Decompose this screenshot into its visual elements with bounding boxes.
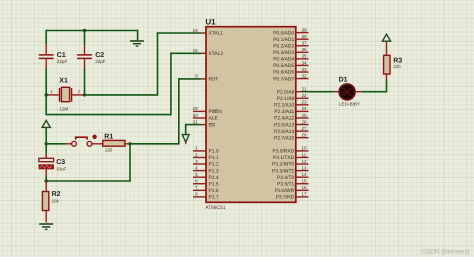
svg-text:C1: C1 [57,52,66,59]
svg-text:P0.5/AD5: P0.5/AD5 [273,63,294,69]
ground (bottom, earth symbol) [39,224,53,229]
node junction crystal left / C1 [45,93,48,96]
svg-text:R1: R1 [104,134,113,141]
svg-text:220: 220 [393,64,401,69]
svg-text:19: 19 [193,28,199,33]
pin 23 P2.2/A10 (right) [274,100,308,109]
pin 35 P0.4/AD4 (right) [273,54,308,63]
node junction C3 bottom / R2 / RST [45,179,48,182]
pin 39 P0.0/AD0 (right) [273,27,308,36]
pin 6 P1.5 (left) [193,179,219,188]
pin 30 ALE (left) [193,113,219,122]
svg-text:X1: X1 [59,78,68,85]
node junction top rail / C2 [83,29,86,32]
pin 9 RST (left) [195,74,218,83]
pin 21 P2.0/A8 (right) [277,87,307,96]
svg-text:P1.7: P1.7 [209,195,219,201]
svg-text:220: 220 [105,147,113,152]
capacitor C1 [39,44,54,95]
resistor R3 220 [384,42,390,74]
svg-text:P3.3/INT1: P3.3/INT1 [272,168,294,174]
wire XTAL2 net [45,53,200,115]
wire EA to ground terminal [186,124,201,135]
pin 36 P0.3/AD3 (right) [273,47,308,56]
svg-text:RST: RST [209,77,219,83]
svg-text:AT89C51: AT89C51 [205,205,226,211]
svg-text:29: 29 [193,106,199,111]
svg-text:31: 31 [193,119,199,124]
pin 31 EA (left) [193,119,216,128]
capacitor C2 [77,45,92,95]
ground (top, earth symbol) [130,30,144,46]
svg-text:13: 13 [302,165,308,170]
pin 25 P2.4/A12 (right) [274,113,308,122]
label C2 22pF [95,52,106,64]
svg-text:P0.3/AD3: P0.3/AD3 [273,50,294,56]
svg-text:12: 12 [302,159,308,164]
pin 38 P0.1/AD1 (right) [273,34,308,43]
svg-text:P0.2/AD2: P0.2/AD2 [273,43,294,49]
label U1 [205,18,216,27]
svg-text:P1.3: P1.3 [209,168,219,174]
LED D1 LED-BIBY [339,84,355,100]
pin 24 P2.3/A11 (right) [274,106,308,115]
svg-text:28: 28 [302,132,308,137]
pin 28 P2.7/A15 (right) [274,132,308,141]
svg-text:10uF: 10uF [56,166,66,171]
pin 37 P0.2/AD2 (right) [273,41,308,50]
label C1 22pF [57,52,68,64]
svg-text:P2.4/A12: P2.4/A12 [274,116,294,122]
wire LED to R3 [355,74,387,93]
label R2 10k [52,191,61,204]
pin 34 P0.5/AD5 (right) [273,60,308,69]
node junction crystal right / C2 [83,93,86,96]
svg-text:21: 21 [302,87,308,92]
svg-text:26: 26 [302,119,308,124]
pin 19 XTAL1 (left) [193,28,224,37]
wire top rail C1-C2-ground [46,30,137,45]
svg-text:P1.5: P1.5 [209,181,219,187]
capacitor C3 10uF (electrolytic) [39,144,54,181]
svg-text:14: 14 [302,172,308,177]
pin 22 P2.1/A9 (right) [277,93,309,102]
svg-text:P0.6/AD6: P0.6/AD6 [273,70,294,76]
svg-text:16: 16 [302,185,308,190]
svg-text:15: 15 [302,179,308,184]
svg-text:P1.4: P1.4 [209,175,219,181]
svg-text:P2.3/A11: P2.3/A11 [274,109,294,115]
pin 13 P3.3/INT1 (right) [272,165,308,174]
svg-text:R2: R2 [52,191,61,198]
pin 3 P1.2 (left) [193,159,219,168]
svg-text:11: 11 [302,152,307,157]
ground terminal (down arrow) at EA [182,135,189,145]
svg-text:CSDN @kinnend: CSDN @kinnend [421,249,470,256]
svg-text:C2: C2 [95,52,104,59]
pin 8 P1.7 (left) [193,192,219,201]
svg-text:P2.5/A13: P2.5/A13 [274,122,294,128]
svg-text:36: 36 [302,47,308,52]
pin 2 P1.1 (left) [193,152,219,161]
svg-text:P1.0: P1.0 [209,149,219,155]
IC U1 AT89C51 (MCU body) [206,27,296,203]
svg-text:P3.7/RD: P3.7/RD [276,195,295,201]
pin 11 P3.1/TXD (right) [273,152,309,161]
label X1 12M pins 1 2 [50,78,81,112]
svg-text:24: 24 [302,106,308,111]
pin 12 P3.2/INT0 (right) [272,159,308,168]
wire RST node drop [46,143,131,181]
pin 14 P3.4/T0 (right) [277,172,308,181]
svg-text:U1: U1 [205,18,216,27]
pin 16 P3.6/WR (right) [275,185,309,194]
resistor R2 10k [42,181,48,223]
label AT89C51 [205,205,226,211]
watermark CSDN [421,249,470,256]
svg-text:12M: 12M [59,107,68,112]
pin 26 P2.5/A13 (right) [274,119,308,128]
svg-text:10: 10 [302,146,308,151]
pin 18 XTAL2 (left) [193,48,224,57]
pin 33 P0.6/AD6 (right) [273,67,308,76]
svg-text:27: 27 [302,126,308,131]
crystal X1 [47,87,84,102]
svg-text:P1.2: P1.2 [209,162,219,168]
svg-text:38: 38 [302,34,308,39]
pin 29 PSEN (left) [193,106,223,115]
svg-text:XTAL2: XTAL2 [209,51,224,57]
svg-text:30: 30 [193,113,199,118]
svg-text:LED-BIBY: LED-BIBY [339,102,360,107]
svg-text:22pF: 22pF [95,59,106,64]
label D1 LED-BIBY [339,76,360,106]
svg-text:P0.4/AD4: P0.4/AD4 [273,57,294,63]
svg-text:39: 39 [302,27,308,32]
power terminal VCC (up arrow) reset rail [42,120,50,143]
svg-text:P2.7/A15: P2.7/A15 [274,135,294,141]
label R3 220 [393,58,402,70]
svg-text:ALE: ALE [209,116,219,122]
svg-text:22: 22 [302,93,308,98]
svg-text:37: 37 [302,41,308,46]
svg-text:35: 35 [302,54,308,59]
pin 17 P3.7/RD (right) [276,192,309,201]
wire XTAL1 net [85,33,201,96]
svg-text:P3.0/RXD: P3.0/RXD [272,149,294,155]
label C3 10uF [56,159,66,171]
svg-text:P2.6/A14: P2.6/A14 [274,129,294,135]
svg-text:25: 25 [302,113,308,118]
svg-text:P3.5/T1: P3.5/T1 [277,181,294,187]
svg-text:34: 34 [302,60,308,65]
svg-text:D1: D1 [339,76,348,83]
wire P2.0 to LED D1 [302,91,339,93]
wire VCC rail to button [46,143,65,145]
svg-text:32: 32 [302,73,308,78]
svg-text:P0.7/AD7: P0.7/AD7 [273,76,294,82]
svg-text:P2.1/A9: P2.1/A9 [277,96,295,102]
svg-text:C3: C3 [56,159,65,166]
node junction VCC rail [45,142,48,145]
svg-text:P0.1/AD1: P0.1/AD1 [273,37,294,43]
svg-text:EA: EA [209,122,216,128]
svg-text:XTAL1: XTAL1 [209,31,224,37]
pin 5 P1.4 (left) [193,172,219,181]
resistor R1 220 [103,140,130,146]
svg-text:P1.6: P1.6 [209,188,219,194]
svg-text:P2.0/A8: P2.0/A8 [277,89,295,95]
pin 27 P2.6/A14 (right) [274,126,308,135]
svg-text:P3.1/TXD: P3.1/TXD [273,155,295,161]
svg-text:P3.6/WR: P3.6/WR [275,188,295,194]
svg-text:23: 23 [302,100,308,105]
svg-text:P2.2/A10: P2.2/A10 [274,103,294,109]
svg-text:22pF: 22pF [57,59,68,64]
svg-text:PSEN: PSEN [209,109,223,115]
node junction R1 right / RST [128,142,131,145]
svg-text:P0.0/AD0: P0.0/AD0 [273,30,294,36]
pin 15 P3.5/T1 (right) [277,179,308,188]
pin 10 P3.0/RXD (right) [272,146,308,155]
wire RST net [130,78,201,144]
svg-text:18: 18 [193,48,199,53]
power terminal VCC (up arrow) at R3 [382,34,390,41]
push button (reset) [66,135,103,147]
svg-text:17: 17 [302,192,308,197]
svg-text:P3.4/T0: P3.4/T0 [277,175,294,181]
label R1 220 [104,134,113,153]
svg-text:33: 33 [302,67,308,72]
svg-text:P1.1: P1.1 [209,155,219,161]
svg-text:10k: 10k [52,198,60,203]
pin 7 P1.6 (left) [193,185,219,194]
svg-text:P3.2/INT0: P3.2/INT0 [272,162,294,168]
pin 4 P1.3 (left) [193,165,219,174]
pin 32 P0.7/AD7 (right) [273,73,308,82]
pin 1 P1.0 (left) [193,146,219,155]
